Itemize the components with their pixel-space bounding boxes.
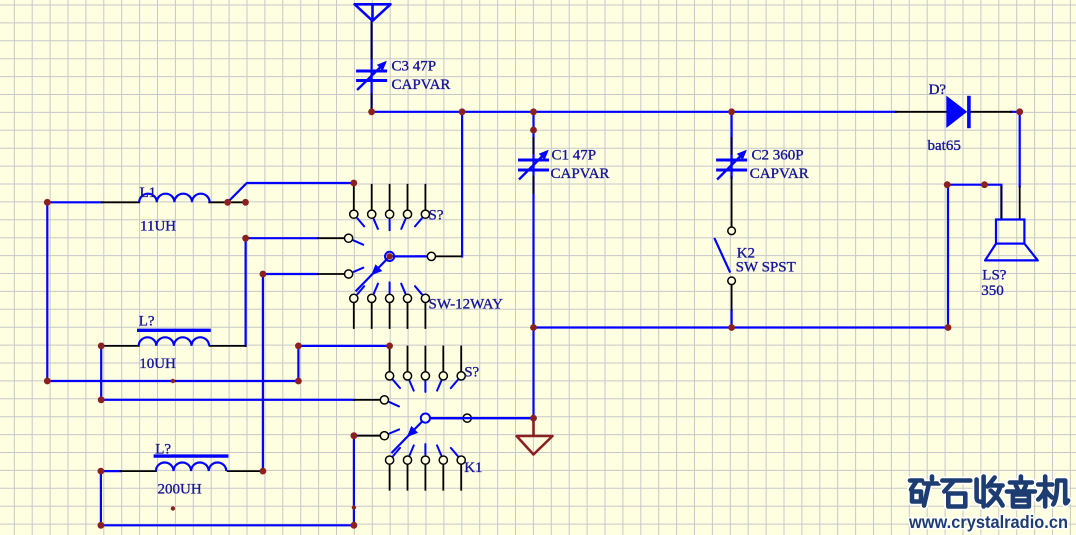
svg-text:350: 350 [981, 283, 1004, 299]
svg-text:K1: K1 [464, 460, 482, 476]
svg-text:200UH: 200UH [158, 481, 202, 497]
svg-text:bat65: bat65 [928, 138, 961, 154]
svg-text:L?: L? [139, 314, 155, 330]
svg-text:www.crystalradio.cn: www.crystalradio.cn [908, 512, 1068, 532]
svg-text:SW-12WAY: SW-12WAY [429, 297, 504, 313]
svg-text:C2 360P: C2 360P [752, 148, 804, 164]
svg-text:S?: S? [429, 207, 444, 223]
svg-text:CAPVAR: CAPVAR [392, 77, 451, 93]
svg-text:CAPVAR: CAPVAR [551, 166, 610, 182]
svg-text:L1: L1 [140, 185, 157, 201]
svg-text:C1 47P: C1 47P [552, 148, 597, 164]
svg-text:S?: S? [464, 365, 479, 381]
svg-text:L?: L? [155, 441, 171, 457]
svg-text:10UH: 10UH [139, 356, 176, 372]
svg-text:C3 47P: C3 47P [392, 59, 437, 75]
svg-text:D?: D? [929, 82, 947, 98]
svg-text:11UH: 11UH [140, 219, 176, 235]
svg-text:SW SPST: SW SPST [736, 260, 796, 276]
svg-text:CAPVAR: CAPVAR [750, 166, 809, 182]
svg-text:LS?: LS? [982, 267, 1007, 283]
